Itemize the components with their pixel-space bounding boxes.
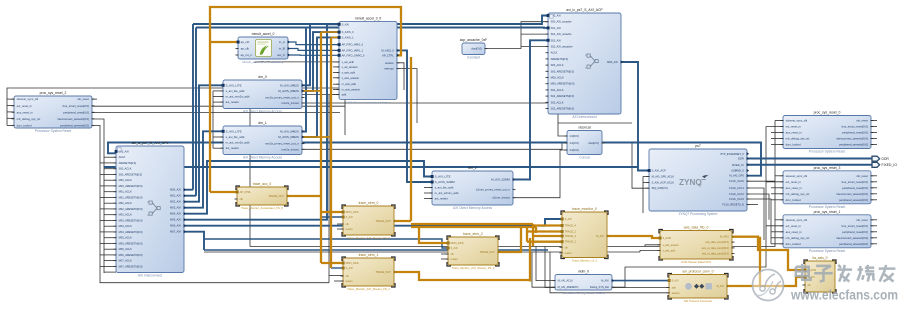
svg-text:M_AXI_MM2S: M_AXI_MM2S [280, 83, 299, 87]
svg-text:s_axi_lite_aclk: s_axi_lite_aclk [226, 135, 245, 139]
svg-text:mb_debug_sys_rst: mb_debug_sys_rst [786, 192, 810, 196]
svg-text:axi_ic_ps7_S_AXI_ACP: axi_ic_ps7_S_AXI_ACP [566, 8, 603, 12]
svg-text:interrupt: interrupt [384, 67, 394, 71]
svg-text:In2[0:0]: In2[0:0] [570, 148, 579, 152]
svg-text:aclk: aclk [342, 93, 347, 97]
svg-text:slowest_sync_clk: slowest_sync_clk [786, 174, 808, 178]
svg-text:S_AXIS_0: S_AXIS_0 [342, 30, 355, 34]
svg-text:m_axi_s2mm_aclk: m_axi_s2mm_aclk [435, 191, 459, 195]
svg-text:M01_ARESETN[0:0]: M01_ARESETN[0:0] [119, 195, 143, 199]
svg-text:resetn: resetn [346, 280, 354, 283]
svg-text:TRACE_OUT: TRACE_OUT [376, 271, 392, 274]
svg-text:AP_FIFO_OARG_0: AP_FIFO_OARG_0 [342, 53, 365, 57]
svg-text:ACLK: ACLK [119, 155, 126, 159]
svg-text:mb_debug_sys_rst: mb_debug_sys_rst [17, 117, 41, 121]
svg-text:peripheral_aresetn[0:0]: peripheral_aresetn[0:0] [839, 143, 868, 147]
svg-text:axi_resetn: axi_resetn [226, 100, 240, 104]
svg-text:M07_ACLK: M07_ACLK [119, 259, 133, 263]
svg-text:axis_wr_data_count[31:0]: axis_wr_data_count[31:0] [702, 247, 730, 250]
svg-text:aux_reset_in: aux_reset_in [786, 230, 802, 234]
svg-text:FCLK_CLK1: FCLK_CLK1 [729, 186, 744, 190]
svg-text:TRACE_4: TRACE_4 [565, 225, 577, 228]
svg-text:M00_AXI: M00_AXI [607, 60, 618, 64]
svg-text:S00_AXI_arcache: S00_AXI_arcache [551, 20, 572, 24]
svg-text:S_AXI_LITE: S_AXI_LITE [435, 175, 451, 179]
svg-text:S_AXIS: S_AXIS [663, 237, 672, 240]
svg-text:aresetn: aresetn [672, 292, 681, 295]
svg-text:M05_AXI: M05_AXI [170, 218, 181, 222]
svg-text:mb_debug_sys_rst: mb_debug_sys_rst [786, 236, 810, 240]
svg-text:s2mm_prmry_reset_out_n: s2mm_prmry_reset_out_n [476, 187, 510, 191]
svg-text:dout[2:0]: dout[2:0] [588, 141, 599, 145]
svg-text:M_AXI_ARESETN: M_AXI_ARESETN [558, 286, 579, 289]
svg-text:S00_ACLK: S00_ACLK [551, 63, 564, 67]
svg-text:M00_ACLK: M00_ACLK [119, 178, 133, 182]
svg-text:trace_strm_0: trace_strm_0 [359, 201, 379, 205]
svg-text:M_AXIS_MM2S: M_AXIS_MM2S [278, 135, 299, 139]
svg-text:mm2s_introut: mm2s_introut [281, 147, 299, 151]
svg-text:M_AXI: M_AXI [717, 285, 725, 288]
svg-text:Trace_Monitor_Accelerator_FS_0: Trace_Monitor_Accelerator_FS_0 [241, 206, 283, 210]
svg-text:S_AXI_LITE: S_AXI_LITE [226, 83, 242, 87]
svg-text:AXI4-Stream Data FIFO: AXI4-Stream Data FIFO [681, 260, 712, 264]
svg-text:peripheral_reset[0:0]: peripheral_reset[0:0] [842, 186, 868, 190]
svg-text:S_AXI_ACP: S_AXI_ACP [652, 169, 666, 173]
svg-text:proc_sys_reset_3: proc_sys_reset_3 [814, 166, 841, 170]
svg-text:Processor System Reset: Processor System Reset [809, 150, 845, 154]
svg-text:ARESETN[0:0]: ARESETN[0:0] [119, 161, 137, 165]
svg-text:s_axi_aresetn: s_axi_aresetn [342, 65, 359, 69]
svg-text:peripheral_reset[0:0]: peripheral_reset[0:0] [842, 131, 868, 135]
svg-text:AP_FIFO_IARG_0: AP_FIFO_IARG_0 [342, 43, 364, 47]
svg-text:s_axis_aclk: s_axis_aclk [342, 71, 356, 75]
svg-text:FCLK_RESET0_N: FCLK_RESET0_N [722, 203, 744, 207]
svg-text:TRACE_1: TRACE_1 [565, 241, 577, 244]
svg-text:resetn: resetn [565, 252, 573, 255]
svg-text:xlconcat: xlconcat [578, 126, 590, 130]
svg-text:M03_ARESETN[0:0]: M03_ARESETN[0:0] [119, 218, 143, 222]
svg-text:AXI4-Stream Accelerator Adapte: AXI4-Stream Accelerator Adapter [346, 100, 390, 104]
svg-text:mm2s_introut: mm2s_introut [281, 101, 299, 105]
svg-text:M04_AXI: M04_AXI [170, 212, 181, 216]
svg-text:M_AXI_S2MM: M_AXI_S2MM [491, 178, 510, 182]
svg-text:TRACE_OUT: TRACE_OUT [269, 195, 285, 198]
svg-text:mb_debug_sys_rst: mb_debug_sys_rst [786, 137, 810, 141]
svg-text:FCLK_CLK2: FCLK_CLK2 [729, 192, 744, 196]
svg-text:S_AXI: S_AXI [346, 216, 353, 219]
svg-text:axis_data_fifo_0: axis_data_fifo_0 [684, 226, 709, 230]
svg-text:M_AXI_ACLK: M_AXI_ACLK [558, 280, 574, 283]
svg-text:ap_rst_n: ap_rst_n [241, 53, 253, 57]
svg-text:mb_reset: mb_reset [856, 174, 868, 178]
svg-text:Processor System Reset: Processor System Reset [809, 249, 845, 253]
svg-text:M_AXIS_MM2S: M_AXIS_MM2S [278, 89, 299, 93]
svg-text:s_axis_aresetn: s_axis_aresetn [342, 76, 360, 80]
svg-text:AXI Direct Memory Access: AXI Direct Memory Access [243, 110, 282, 114]
svg-text:ap_ctrl: ap_ctrl [241, 40, 250, 44]
svg-text:mmult_accel_0: mmult_accel_0 [252, 32, 275, 36]
svg-text:axis_rd_data_count[31:0]: axis_rd_data_count[31:0] [702, 253, 729, 256]
svg-text:M04_ARESETN[0:0]: M04_ARESETN[0:0] [119, 230, 143, 234]
svg-text:AXI Protocol Converter: AXI Protocol Converter [684, 299, 713, 303]
svg-text:m_axi_mm2s_aclk: m_axi_mm2s_aclk [226, 95, 250, 99]
svg-text:peripheral_aresetn[0:0]: peripheral_aresetn[0:0] [839, 198, 868, 202]
svg-text:TRACE_OUT: TRACE_OUT [480, 251, 496, 254]
svg-text:S00_ACLK: S00_ACLK [119, 167, 132, 171]
svg-text:S_AXI: S_AXI [672, 280, 679, 283]
svg-text:axi_protocol_conv_0: axi_protocol_conv_0 [682, 270, 713, 274]
svg-text:M01_AXI: M01_AXI [170, 194, 181, 198]
svg-text:S_AXIS_S2MM: S_AXIS_S2MM [435, 180, 456, 184]
svg-text:in_A: in_A [279, 40, 285, 44]
svg-text:MicroBlaze Debug Module (MDM): MicroBlaze Debug Module (MDM) [562, 291, 604, 295]
svg-text:M06_ACLK: M06_ACLK [119, 247, 133, 251]
svg-text:Trace_Monitor_AXI_Stream_FS_1: Trace_Monitor_AXI_Stream_FS_1 [347, 287, 390, 291]
svg-text:s2mm_introut: s2mm_introut [492, 196, 510, 200]
svg-text:Mmult_accel (Pre-Production): Mmult_accel (Pre-Production) [243, 60, 284, 64]
svg-text:mm2s_prmry_reset_out_n: mm2s_prmry_reset_out_n [265, 96, 299, 100]
svg-text:M06_ARESETN[0:0]: M06_ARESETN[0:0] [119, 253, 143, 257]
svg-text:M06_AXI: M06_AXI [170, 224, 181, 228]
svg-text:Processor System Reset: Processor System Reset [809, 205, 845, 209]
svg-text:M_AXI: M_AXI [596, 235, 604, 238]
svg-text:S_AXI: S_AXI [451, 247, 458, 250]
svg-text:M_AXI_MM2S: M_AXI_MM2S [280, 130, 299, 134]
svg-text:interconnect_aresetn[0:0]: interconnect_aresetn[0:0] [836, 192, 868, 196]
svg-text:mb_reset: mb_reset [856, 119, 868, 123]
svg-text:In1[0:0]: In1[0:0] [570, 141, 579, 145]
svg-text:S_AXI: S_AXI [565, 218, 572, 221]
svg-text:TRACE_3: TRACE_3 [565, 235, 577, 238]
svg-text:s_axi_lite_aclk: s_axi_lite_aclk [226, 89, 245, 93]
svg-text:axi_resetn: axi_resetn [226, 146, 240, 150]
svg-text:out_C: out_C [277, 53, 285, 57]
svg-text:M01_ACLK: M01_ACLK [119, 190, 133, 194]
svg-text:S01_AXI: S01_AXI [551, 26, 562, 30]
svg-text:M00_ARESETN[0:0]: M00_ARESETN[0:0] [119, 184, 143, 188]
svg-text:M05_ARESETN[0:0]: M05_ARESETN[0:0] [119, 241, 143, 245]
svg-text:PTP_ETHERNET_0: PTP_ETHERNET_0 [720, 152, 744, 156]
svg-text:s_axis_aresetn: s_axis_aresetn [663, 244, 680, 247]
svg-text:trace_strm_2: trace_strm_2 [463, 232, 483, 236]
svg-text:resetn: resetn [346, 228, 354, 231]
svg-text:MON_AXIS: MON_AXIS [346, 211, 359, 214]
svg-text:slowest_sync_clk: slowest_sync_clk [786, 218, 808, 222]
svg-text:USBIND_0: USBIND_0 [731, 169, 744, 173]
svg-text:S_AXI: S_AXI [342, 22, 350, 26]
svg-text:aresetn: aresetn [385, 61, 394, 65]
svg-text:dcm_locked: dcm_locked [786, 143, 801, 147]
svg-text:DDR: DDR [882, 157, 890, 161]
svg-text:mmult_accel_0_if: mmult_accel_0_if [355, 17, 381, 21]
svg-text:S02_ARESETN[0:0]: S02_ARESETN[0:0] [551, 107, 575, 111]
svg-text:AXI Interconnect: AXI Interconnect [138, 274, 162, 278]
svg-text:m_axi_mm2s_aclk: m_axi_mm2s_aclk [226, 141, 250, 145]
svg-text:S_AXI: S_AXI [346, 267, 353, 270]
svg-text:Trace_Monitor_v1_1: Trace_Monitor_v1_1 [572, 259, 598, 263]
svg-text:dout[3:0]: dout[3:0] [471, 47, 482, 51]
svg-text:TRACE_OUT: TRACE_OUT [376, 220, 392, 223]
svg-text:dcm_locked: dcm_locked [786, 242, 801, 246]
svg-text:S00_ARESETN[0:0]: S00_ARESETN[0:0] [551, 69, 575, 73]
svg-text:s_axi_aclk: s_axi_aclk [342, 60, 355, 64]
svg-text:ACLK: ACLK [551, 51, 558, 55]
svg-text:mdm_0: mdm_0 [578, 270, 589, 274]
svg-text:M07_AXI: M07_AXI [170, 230, 181, 234]
svg-text:Debug_SYS_Rst: Debug_SYS_Rst [590, 286, 609, 289]
svg-text:ext_reset_in: ext_reset_in [786, 180, 802, 184]
svg-text:m_axis_aresetn: m_axis_aresetn [342, 87, 361, 91]
svg-text:slowest_sync_clk: slowest_sync_clk [17, 97, 39, 101]
svg-text:DDR: DDR [738, 157, 744, 161]
svg-text:FCLK_CLK3: FCLK_CLK3 [729, 197, 744, 201]
svg-text:M00_AXI: M00_AXI [170, 188, 181, 192]
svg-text:axi_resetn: axi_resetn [435, 197, 449, 201]
svg-text:trace_monitor_0: trace_monitor_0 [572, 207, 597, 211]
svg-text:IRQ_F2P[2:0]: IRQ_F2P[2:0] [652, 186, 668, 190]
svg-text:M03_ACLK: M03_ACLK [119, 213, 133, 217]
svg-text:proc_sys_reset_1: proc_sys_reset_1 [814, 210, 841, 214]
svg-text:dcm_locked: dcm_locked [786, 198, 801, 202]
svg-text:bus_struct_reset[0:0]: bus_struct_reset[0:0] [842, 180, 868, 184]
svg-text:S01_ACLK: S01_ACLK [551, 88, 564, 92]
svg-text:MON_AXIS: MON_AXIS [451, 242, 464, 245]
svg-text:ps7: ps7 [695, 144, 701, 148]
svg-text:M_AXIS: M_AXIS [720, 236, 729, 239]
svg-text:M_AXI_GP0_ACLK: M_AXI_GP0_ACLK [652, 175, 675, 179]
svg-text:M_AXIS_0: M_AXIS_0 [381, 48, 394, 52]
svg-text:interconnect_aresetn[0:0]: interconnect_aresetn[0:0] [57, 117, 89, 121]
svg-text:M04_ACLK: M04_ACLK [119, 224, 133, 228]
svg-text:M02_AXI: M02_AXI [170, 200, 181, 204]
svg-text:AP_FIFO_IARG_1: AP_FIFO_IARG_1 [342, 48, 364, 52]
svg-text:AXI Interconnect: AXI Interconnect [572, 115, 596, 119]
svg-text:M02_ARESETN[0:0]: M02_ARESETN[0:0] [119, 207, 143, 211]
svg-text:M_AXI_GP0: M_AXI_GP0 [729, 174, 744, 178]
svg-text:ila_axis_0: ila_axis_0 [812, 256, 827, 260]
svg-text:dm_2: dm_2 [468, 166, 477, 170]
svg-text:Trace_Monitor_AXI_Stream_FS_2: Trace_Monitor_AXI_Stream_FS_2 [452, 266, 495, 270]
svg-text:in_B: in_B [279, 47, 285, 51]
svg-text:bus_struct_reset[0:0]: bus_struct_reset[0:0] [842, 224, 868, 228]
svg-text:peripheral_reset[0:0]: peripheral_reset[0:0] [842, 230, 868, 234]
svg-text:dm_0: dm_0 [258, 75, 267, 79]
svg-text:M00_ARESETN[0:0]: M00_ARESETN[0:0] [551, 82, 575, 86]
svg-text:s_axis_aclk: s_axis_aclk [663, 250, 676, 253]
svg-text:AP_CTRL: AP_CTRL [240, 191, 252, 194]
svg-text:dm_1: dm_1 [258, 121, 267, 125]
svg-text:FCLK_CLK0: FCLK_CLK0 [729, 179, 744, 183]
svg-text:ap_clk: ap_clk [241, 47, 250, 51]
svg-text:Constant: Constant [467, 56, 480, 60]
svg-text:ext_reset_in: ext_reset_in [17, 104, 33, 108]
svg-text:trace_strm_1: trace_strm_1 [359, 253, 379, 257]
svg-text:ZYNQ7 Processing System: ZYNQ7 Processing System [679, 212, 718, 216]
svg-text:AXI Direct Memory Access: AXI Direct Memory Access [243, 156, 282, 160]
svg-text:axis_data_count[31:0]: axis_data_count[31:0] [705, 241, 729, 244]
svg-text:S_AXI_LITE: S_AXI_LITE [226, 129, 242, 133]
svg-text:bus_struct_reset[0:0]: bus_struct_reset[0:0] [842, 125, 868, 129]
svg-text:S01_ARESETN[0:0]: S01_ARESETN[0:0] [551, 94, 575, 98]
svg-text:S01_AXI_arcache: S01_AXI_arcache [551, 32, 572, 36]
svg-text:dcm_locked: dcm_locked [17, 123, 32, 127]
svg-text:S02_AXI: S02_AXI [551, 38, 562, 42]
svg-text:axi_ic_ps7_M_AXI_GP0: axi_ic_ps7_M_AXI_GP0 [132, 141, 169, 145]
svg-text:S_AXIS_1: S_AXIS_1 [342, 35, 355, 39]
svg-text:M03_AXI: M03_AXI [170, 206, 181, 210]
svg-text:www.elecfans.com: www.elecfans.com [790, 287, 898, 303]
svg-text:resetn: resetn [451, 258, 459, 261]
svg-text:FIXED_IO: FIXED_IO [732, 163, 744, 167]
svg-text:In0[0:0]: In0[0:0] [570, 134, 579, 138]
svg-text:acp_axcache_0xF: acp_axcache_0xF [460, 38, 488, 42]
svg-text:aux_reset_in: aux_reset_in [786, 186, 802, 190]
svg-text:AP_CTRL: AP_CTRL [382, 53, 394, 57]
svg-text:Processor System Reset: Processor System Reset [35, 129, 71, 133]
svg-text:TRACE_2: TRACE_2 [565, 231, 577, 234]
svg-text:M07_ARESETN[0:0]: M07_ARESETN[0:0] [119, 264, 143, 268]
svg-text:FIXED_IO: FIXED_IO [882, 163, 898, 167]
svg-text:M05_ACLK: M05_ACLK [119, 236, 133, 240]
svg-text:mb_reset: mb_reset [856, 218, 868, 222]
svg-text:M_AXI: M_AXI [601, 280, 609, 283]
svg-text:S_AXI_ACP_ACLK: S_AXI_ACP_ACLK [652, 181, 675, 185]
svg-text:proc_sys_reset_2: proc_sys_reset_2 [40, 91, 67, 95]
svg-text:aux_reset_in: aux_reset_in [17, 110, 33, 114]
svg-text:interconnect_aresetn[0:0]: interconnect_aresetn[0:0] [836, 137, 868, 141]
svg-text:ARESETN[0:0]: ARESETN[0:0] [551, 57, 569, 61]
svg-text:S02_ACLK: S02_ACLK [551, 100, 564, 104]
svg-text:proc_sys_reset_0: proc_sys_reset_0 [814, 111, 841, 115]
svg-text:mm2s_prmry_reset_out_n: mm2s_prmry_reset_out_n [265, 142, 299, 146]
svg-text:m_axis_aclk: m_axis_aclk [342, 82, 357, 86]
svg-text:Trace_Monitor_AXI_Stream_FS_0: Trace_Monitor_AXI_Stream_FS_0 [347, 236, 390, 240]
svg-text:bus_struct_reset[0:0]: bus_struct_reset[0:0] [63, 104, 89, 108]
svg-text:aux_reset_in: aux_reset_in [786, 131, 802, 135]
svg-text:.: . [700, 178, 702, 187]
svg-text:M02_ACLK: M02_ACLK [119, 201, 133, 205]
svg-text:MON_AXIS: MON_AXIS [346, 262, 359, 265]
svg-text:peripheral_aresetn[0:0]: peripheral_aresetn[0:0] [60, 123, 89, 127]
svg-text:M00_ACLK: M00_ACLK [551, 76, 565, 80]
svg-text:interconnect_aresetn[0:0]: interconnect_aresetn[0:0] [836, 236, 868, 240]
svg-text:peripheral_aresetn[0:0]: peripheral_aresetn[0:0] [839, 242, 868, 246]
svg-text:peripheral_reset[0:0]: peripheral_reset[0:0] [63, 110, 89, 114]
svg-text:s_axi_lite_aclk: s_axi_lite_aclk [435, 186, 454, 190]
svg-text:AXI Direct Memory Access: AXI Direct Memory Access [453, 206, 492, 210]
svg-text:S00_ARESETN[0:0]: S00_ARESETN[0:0] [119, 172, 143, 176]
svg-text:Concat: Concat [579, 156, 590, 160]
svg-text:S02_AXI_awcache: S02_AXI_awcache [551, 45, 573, 49]
svg-text:ext_reset_in: ext_reset_in [786, 224, 802, 228]
svg-text:trace_acc_0: trace_acc_0 [253, 182, 272, 186]
svg-text:mb_reset: mb_reset [77, 97, 89, 101]
svg-text:ext_reset_in: ext_reset_in [786, 125, 802, 129]
svg-text:slowest_sync_clk: slowest_sync_clk [786, 119, 808, 123]
